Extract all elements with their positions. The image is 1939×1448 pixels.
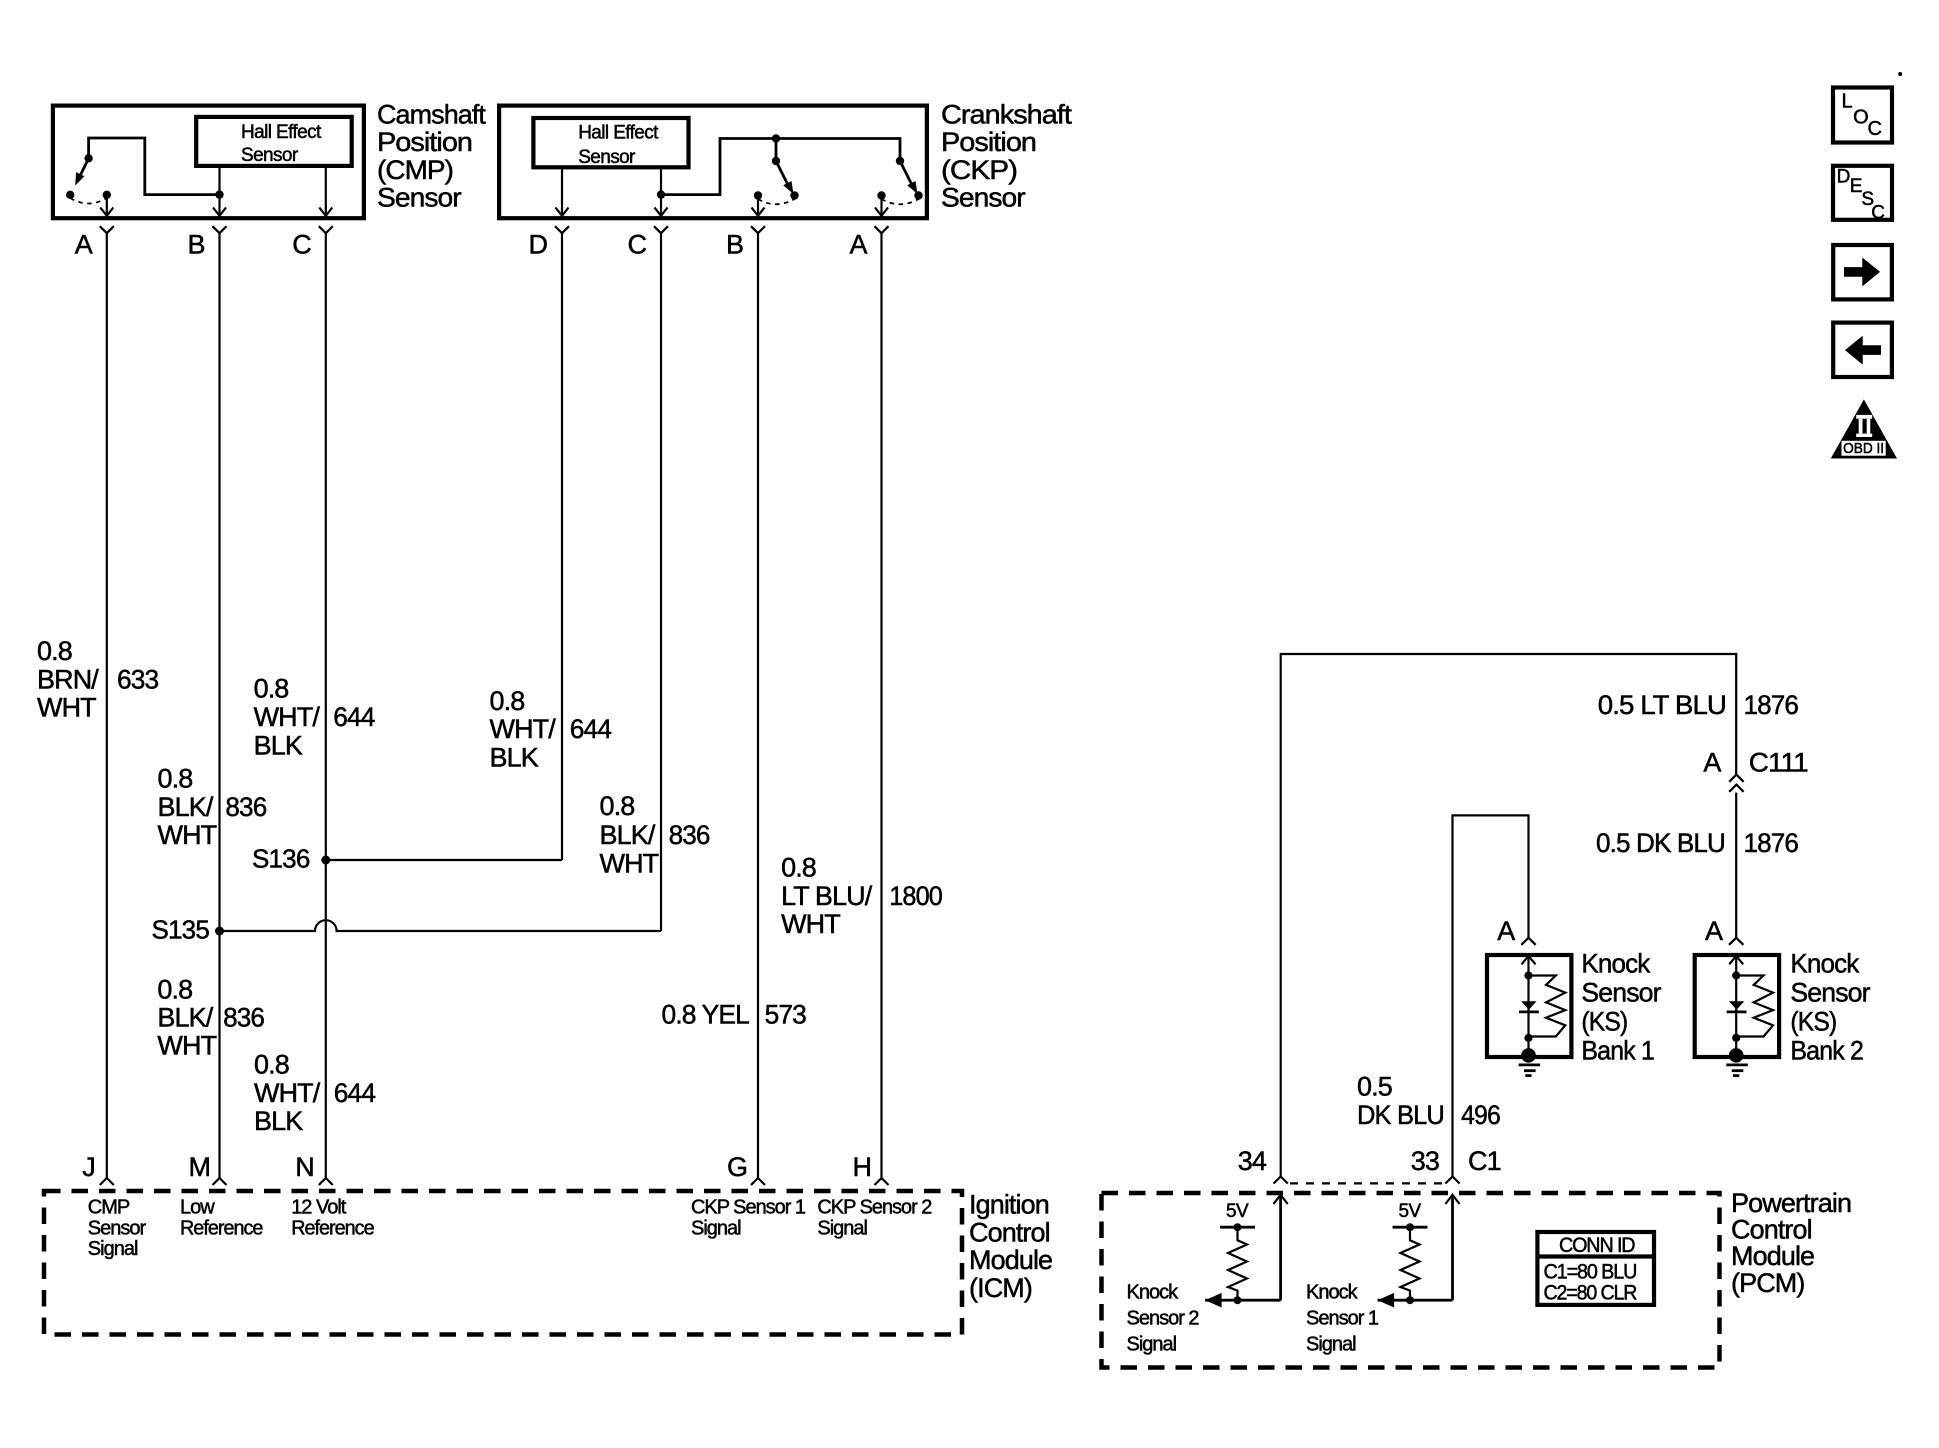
svg-text:N: N [295, 1152, 315, 1182]
svg-text:Hall Effect: Hall Effect [578, 122, 659, 143]
svg-text:C111: C111 [1749, 748, 1808, 778]
svg-text:A: A [849, 230, 867, 260]
svg-text:BLK: BLK [490, 743, 539, 773]
svg-text:Knock: Knock [1306, 1281, 1359, 1303]
svg-text:M: M [189, 1152, 212, 1182]
svg-text:B: B [726, 230, 744, 260]
svg-text:Signal: Signal [1127, 1333, 1177, 1355]
svg-text:A: A [75, 230, 93, 260]
svg-text:OBD II: OBD II [1843, 441, 1884, 457]
svg-text:A: A [1497, 916, 1515, 946]
svg-text:(ICM): (ICM) [969, 1273, 1032, 1303]
svg-text:1876: 1876 [1744, 828, 1799, 858]
svg-text:33: 33 [1411, 1146, 1439, 1176]
svg-text:Signal: Signal [1306, 1333, 1356, 1355]
svg-text:0.8: 0.8 [254, 674, 289, 704]
svg-text:Crankshaft: Crankshaft [941, 100, 1072, 130]
svg-text:WHT: WHT [781, 909, 840, 939]
svg-text:644: 644 [334, 1078, 376, 1108]
svg-text:0.5 DK BLU: 0.5 DK BLU [1596, 828, 1725, 858]
svg-text:Sensor: Sensor [941, 183, 1026, 213]
svg-text:BLK/: BLK/ [600, 820, 656, 850]
svg-text:C: C [292, 230, 312, 260]
svg-text:Bank 2: Bank 2 [1790, 1035, 1863, 1065]
svg-text:BLK/: BLK/ [157, 1003, 213, 1033]
svg-text:(KS): (KS) [1790, 1006, 1836, 1036]
svg-text:WHT: WHT [158, 820, 217, 850]
svg-text:A: A [1705, 916, 1723, 946]
svg-text:WHT/: WHT/ [254, 702, 321, 732]
svg-text:0.8: 0.8 [37, 636, 72, 666]
svg-text:Reference: Reference [291, 1217, 374, 1239]
svg-text:5V: 5V [1226, 1201, 1249, 1222]
svg-text:Sensor: Sensor [377, 183, 462, 213]
svg-text:S136: S136 [252, 844, 310, 874]
svg-text:CMP: CMP [88, 1196, 130, 1218]
svg-text:Position: Position [941, 127, 1036, 157]
svg-text:WHT: WHT [37, 693, 96, 723]
svg-text:CONN ID: CONN ID [1559, 1234, 1635, 1257]
svg-text:836: 836 [225, 792, 266, 822]
svg-text:C2=80 CLR: C2=80 CLR [1544, 1282, 1638, 1305]
svg-text:836: 836 [223, 1002, 264, 1032]
svg-text:Signal: Signal [88, 1238, 138, 1260]
svg-text:BLK: BLK [254, 731, 303, 761]
svg-text:B: B [187, 230, 205, 260]
svg-text:(KS): (KS) [1581, 1006, 1627, 1036]
svg-text:WHT/: WHT/ [490, 714, 557, 744]
svg-text:Module: Module [1731, 1241, 1814, 1271]
svg-text:836: 836 [669, 820, 710, 850]
svg-text:0.8: 0.8 [490, 686, 525, 716]
svg-text:Ignition: Ignition [969, 1190, 1049, 1220]
svg-text:Position: Position [377, 127, 472, 157]
svg-text:J: J [82, 1152, 96, 1182]
svg-text:O: O [1853, 107, 1868, 129]
svg-text:12 Volt: 12 Volt [291, 1196, 347, 1218]
svg-text:Sensor: Sensor [1790, 977, 1870, 1007]
svg-text:Knock: Knock [1127, 1281, 1180, 1303]
svg-text:H: H [853, 1152, 873, 1182]
svg-text:D: D [529, 230, 549, 260]
svg-text:A: A [1703, 748, 1721, 778]
svg-text:CKP Sensor 2: CKP Sensor 2 [817, 1196, 932, 1218]
svg-text:Sensor: Sensor [88, 1217, 147, 1239]
svg-text:DK BLU: DK BLU [1357, 1100, 1444, 1130]
svg-text:WHT/: WHT/ [254, 1078, 321, 1108]
svg-text:Control: Control [1731, 1215, 1812, 1245]
svg-text:(PCM): (PCM) [1731, 1268, 1804, 1298]
svg-text:L: L [1842, 91, 1853, 113]
svg-text:Hall Effect: Hall Effect [241, 122, 322, 143]
svg-text:C: C [1868, 118, 1882, 140]
svg-text:0.5: 0.5 [1357, 1072, 1392, 1102]
svg-text:5V: 5V [1399, 1201, 1422, 1222]
svg-text:CKP Sensor 1: CKP Sensor 1 [691, 1196, 806, 1218]
svg-text:644: 644 [333, 702, 375, 732]
svg-text:Sensor: Sensor [241, 145, 299, 166]
svg-text:C: C [628, 230, 648, 260]
svg-text:Low: Low [180, 1196, 215, 1218]
svg-text:Bank 1: Bank 1 [1581, 1035, 1654, 1065]
svg-text:Sensor 2: Sensor 2 [1127, 1307, 1200, 1329]
svg-text:(CMP): (CMP) [377, 155, 453, 185]
svg-text:WHT: WHT [157, 1031, 216, 1061]
svg-text:1876: 1876 [1744, 690, 1799, 720]
svg-text:Knock: Knock [1790, 948, 1859, 978]
svg-text:0.8 YEL: 0.8 YEL [662, 1000, 750, 1030]
svg-text:WHT: WHT [600, 848, 659, 878]
svg-text:C: C [1871, 203, 1884, 224]
svg-text:Sensor: Sensor [1581, 977, 1661, 1007]
svg-text:34: 34 [1238, 1146, 1267, 1176]
svg-text:(CKP): (CKP) [941, 155, 1017, 185]
svg-text:Powertrain: Powertrain [1731, 1188, 1851, 1218]
svg-text:Module: Module [969, 1245, 1052, 1275]
svg-text:C1: C1 [1468, 1146, 1501, 1176]
svg-text:Reference: Reference [180, 1217, 263, 1239]
svg-text:Signal: Signal [691, 1217, 741, 1239]
svg-text:Knock: Knock [1581, 948, 1650, 978]
svg-text:G: G [727, 1152, 748, 1182]
svg-text:C1=80 BLU: C1=80 BLU [1544, 1261, 1637, 1284]
svg-text:Camshaft: Camshaft [377, 100, 486, 130]
svg-text:496: 496 [1461, 1100, 1500, 1130]
svg-text:BLK/: BLK/ [158, 792, 214, 822]
svg-text:S135: S135 [151, 915, 209, 945]
svg-text:Signal: Signal [817, 1217, 867, 1239]
svg-text:D: D [1837, 167, 1850, 188]
svg-text:E: E [1850, 176, 1862, 197]
svg-text:573: 573 [765, 1000, 806, 1030]
svg-text:BLK: BLK [254, 1106, 303, 1136]
svg-text:0.8: 0.8 [781, 853, 816, 883]
svg-text:644: 644 [570, 714, 612, 744]
svg-text:0.8: 0.8 [158, 763, 193, 793]
svg-text:Sensor: Sensor [578, 147, 636, 168]
svg-text:0.8: 0.8 [254, 1050, 289, 1080]
svg-text:Control: Control [969, 1217, 1050, 1247]
svg-text:Sensor 1: Sensor 1 [1306, 1307, 1379, 1329]
svg-text:0.8: 0.8 [157, 975, 192, 1005]
svg-text:0.5 LT BLU: 0.5 LT BLU [1598, 690, 1726, 720]
svg-text:BRN/: BRN/ [37, 664, 99, 694]
svg-text:1800: 1800 [889, 881, 942, 911]
svg-text:LT BLU/: LT BLU/ [781, 881, 873, 911]
svg-text:0.8: 0.8 [600, 791, 635, 821]
svg-text:633: 633 [117, 664, 158, 694]
